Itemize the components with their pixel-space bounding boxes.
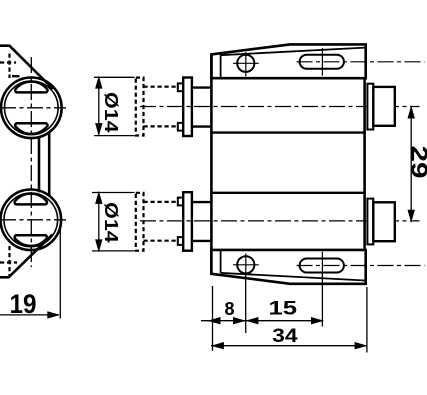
svg-text:Ø14: Ø14 xyxy=(101,202,122,243)
mounting flange top: outer contour xyxy=(211,44,365,78)
top centerline through body and stub xyxy=(140,106,420,108)
dimension 19: extension line xyxy=(59,224,61,319)
left view: bottom button outer circle xyxy=(1,190,62,251)
dimension 8/15 shared bowtie arrowheads xyxy=(233,317,258,324)
mounting flange top: slot vertical centerline xyxy=(321,48,323,76)
dimension Ø14 top: arrowheads xyxy=(95,76,102,137)
mounting flange top: round hole crosshairs xyxy=(233,52,259,76)
left view: bottom button inner circle xyxy=(4,193,58,247)
mounting flange bottom: slot axis centerline xyxy=(297,265,425,267)
bottom dimensions: extension line from flange right edge xyxy=(366,287,368,353)
top button stem lines xyxy=(192,88,212,127)
left view: top button inner circle xyxy=(5,81,59,135)
dimension Ø14 bottom: extension lines xyxy=(92,193,135,251)
svg-text:29: 29 xyxy=(406,146,427,179)
phantom counterplate disc (top, dashed) xyxy=(136,78,144,136)
mounting flange top: inner bend lines xyxy=(221,48,365,78)
mounting flange top: slotted hole xyxy=(300,55,344,69)
dimension 29: dimension line xyxy=(410,106,412,222)
main body: left edge xyxy=(210,54,213,273)
left view: hidden screw hole dashed vertical (top) xyxy=(8,54,10,79)
dimension Ø14 bottom: dimension line xyxy=(98,192,100,252)
mounting flange bottom: inner bend lines xyxy=(221,250,365,280)
left view: short hidden dash near top circle xyxy=(12,75,20,77)
dimension 19: arrowhead xyxy=(47,311,60,318)
dimension 34: dimension line xyxy=(211,345,368,347)
dimension 19: dimension line xyxy=(0,314,59,316)
bottom button stem lines xyxy=(192,202,212,241)
mounting flange bottom: round hole crosshairs xyxy=(233,254,259,278)
left view: top edge and chamfer of catch body xyxy=(0,46,53,89)
left view: vertical centerline xyxy=(30,57,32,267)
svg-text:8: 8 xyxy=(224,299,234,319)
left view: bottom button lower pole strip xyxy=(15,235,47,246)
bottom button boss upper xyxy=(178,198,183,206)
mounting flange bottom: slot vertical centerline xyxy=(321,252,323,279)
left view: hidden screw hole dashed horizontal (bottom) xyxy=(0,261,17,263)
dimension Ø14 top: extension lines xyxy=(94,77,135,135)
top button flange plate xyxy=(183,78,192,137)
dimension 8: left arrowhead xyxy=(208,317,221,324)
phantom counterplate disc (bottom, dashed) xyxy=(136,193,144,251)
left view: hidden screw hole dashed vertical (bottom) xyxy=(8,246,10,276)
mounting flange top: round screw hole xyxy=(237,55,254,72)
mounting flange top: slot axis centerline xyxy=(297,61,425,63)
dimension 15: right arrowhead xyxy=(311,317,324,324)
main body: right edge xyxy=(363,78,366,250)
left view: top button lower pole strip xyxy=(15,123,47,134)
dimension Ø14 top: dimension line xyxy=(98,77,100,136)
top button boss lower xyxy=(178,123,183,131)
left view: top button outer circle xyxy=(1,78,62,139)
top magnet collar on body right xyxy=(367,84,373,130)
bottom magnet collar on body right xyxy=(367,199,373,245)
left view: bottom edge and chamfer of catch body xyxy=(0,235,53,278)
top button boss upper xyxy=(178,83,183,91)
mounting flange bottom: outer contour xyxy=(211,250,365,284)
bottom centerline through body and stub xyxy=(140,220,420,222)
dimension Ø14 bottom: arrowheads xyxy=(95,191,102,253)
phantom counterplate boss lines (bottom, dashed) xyxy=(144,202,178,241)
left view: horizontal centerline top button xyxy=(0,107,66,109)
dimension 8 and 15: dimension line xyxy=(201,320,322,322)
mounting flange bottom: slotted hole xyxy=(300,259,344,273)
left view: hidden screw hole dashed horizontal (top) xyxy=(0,61,16,63)
dimension 29: arrowheads xyxy=(408,106,415,223)
bottom magnet stub xyxy=(373,202,395,241)
main body: horizontal split lines xyxy=(211,78,365,250)
phantom counterplate boss lines (top, dashed) xyxy=(144,87,178,127)
bottom dimensions: extension line from round hole center xyxy=(245,274,247,333)
top magnet stub xyxy=(373,87,395,126)
bottom dimensions: extension line from body left edge xyxy=(212,286,214,351)
svg-text:Ø14: Ø14 xyxy=(101,92,122,133)
left view: bottom button upper pole strip xyxy=(15,194,47,205)
svg-text:15: 15 xyxy=(269,298,298,319)
bottom button flange plate xyxy=(183,192,192,251)
bottom button boss lower xyxy=(178,237,183,245)
svg-text:34: 34 xyxy=(272,325,298,347)
dimension 34: arrowheads xyxy=(211,342,368,349)
left view: top button upper pole strip xyxy=(15,82,47,93)
svg-text:19: 19 xyxy=(10,289,37,319)
left view: neck between buttons right line xyxy=(48,132,51,196)
left view: neck between buttons left line xyxy=(38,137,41,193)
bottom dimensions: extension line from slot center xyxy=(321,273,323,327)
left view: horizontal centerline bottom button xyxy=(0,219,66,221)
mounting flange bottom: round screw hole xyxy=(237,256,254,273)
